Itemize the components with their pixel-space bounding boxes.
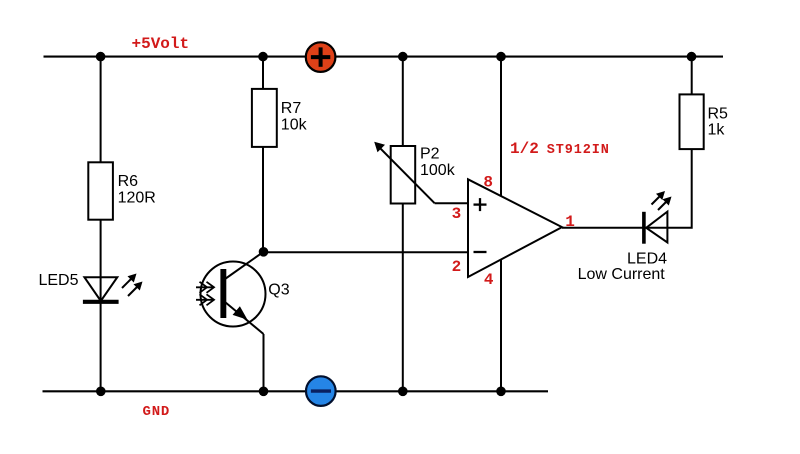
- svg-text:GND: GND: [143, 404, 171, 420]
- op-amp U1: [468, 179, 562, 277]
- svg-text:R6: R6: [118, 173, 139, 190]
- wire pin2 (inverting input from node): [264, 251, 469, 253]
- wire left branch (R6 / LED5): [100, 57, 102, 392]
- svg-text:2: 2: [452, 258, 462, 276]
- wire pin4 (V- supply): [500, 255, 502, 391]
- svg-text:LED5: LED5: [38, 272, 78, 289]
- power terminal +: [306, 42, 336, 72]
- svg-text:100k: 100k: [420, 162, 456, 179]
- wire emitter to GND rail: [263, 334, 265, 391]
- svg-text:R5: R5: [708, 106, 729, 123]
- junction bottom rail at pin4: [496, 387, 506, 397]
- wire P2 branch (rail to rail): [402, 57, 404, 392]
- svg-text:1k: 1k: [708, 122, 726, 139]
- svg-text:LED4: LED4: [627, 250, 667, 267]
- svg-text:8: 8: [483, 173, 493, 191]
- transistor Q3 (phototransistor): [196, 252, 290, 334]
- node collector junction: [259, 247, 269, 257]
- wire pin3 (non-inverting input): [435, 202, 468, 204]
- svg-text:Q3: Q3: [268, 282, 289, 299]
- svg-text:120R: 120R: [118, 190, 156, 207]
- svg-text:1/2: 1/2: [510, 140, 539, 158]
- junction top rail at P2: [398, 52, 408, 62]
- wire pin8 (V+ supply): [500, 57, 502, 200]
- svg-text:+5Volt: +5Volt: [132, 35, 190, 53]
- svg-text:ST912IN: ST912IN: [547, 143, 610, 158]
- junction top rail at R6: [96, 52, 106, 62]
- wire bottom GND rail: [43, 390, 549, 392]
- wire output / LED4 / R5 branch: [562, 57, 692, 228]
- svg-text:10k: 10k: [281, 117, 308, 134]
- junction bottom rail at P2: [398, 387, 408, 397]
- junction top rail at pin8: [496, 52, 506, 62]
- resistor R7: [252, 89, 308, 147]
- junction top rail at R7: [258, 52, 268, 62]
- junction top rail at R5: [687, 52, 697, 62]
- svg-text:3: 3: [452, 205, 462, 223]
- LED5: [38, 272, 142, 302]
- svg-text:R7: R7: [281, 100, 302, 117]
- LED4: [578, 191, 672, 283]
- svg-text:P2: P2: [420, 146, 440, 163]
- resistor R6: [88, 162, 156, 219]
- svg-text:Low Current: Low Current: [578, 266, 666, 283]
- svg-text:4: 4: [484, 271, 494, 289]
- junction bottom rail at LED5: [96, 387, 106, 397]
- power terminal -: [306, 376, 336, 406]
- resistor R5: [680, 94, 729, 149]
- wire R7 branch: [262, 57, 264, 251]
- potentiometer P2: [374, 142, 455, 204]
- junction bottom rail at Q3 emitter: [259, 387, 269, 397]
- wire top +5V rail: [44, 56, 724, 58]
